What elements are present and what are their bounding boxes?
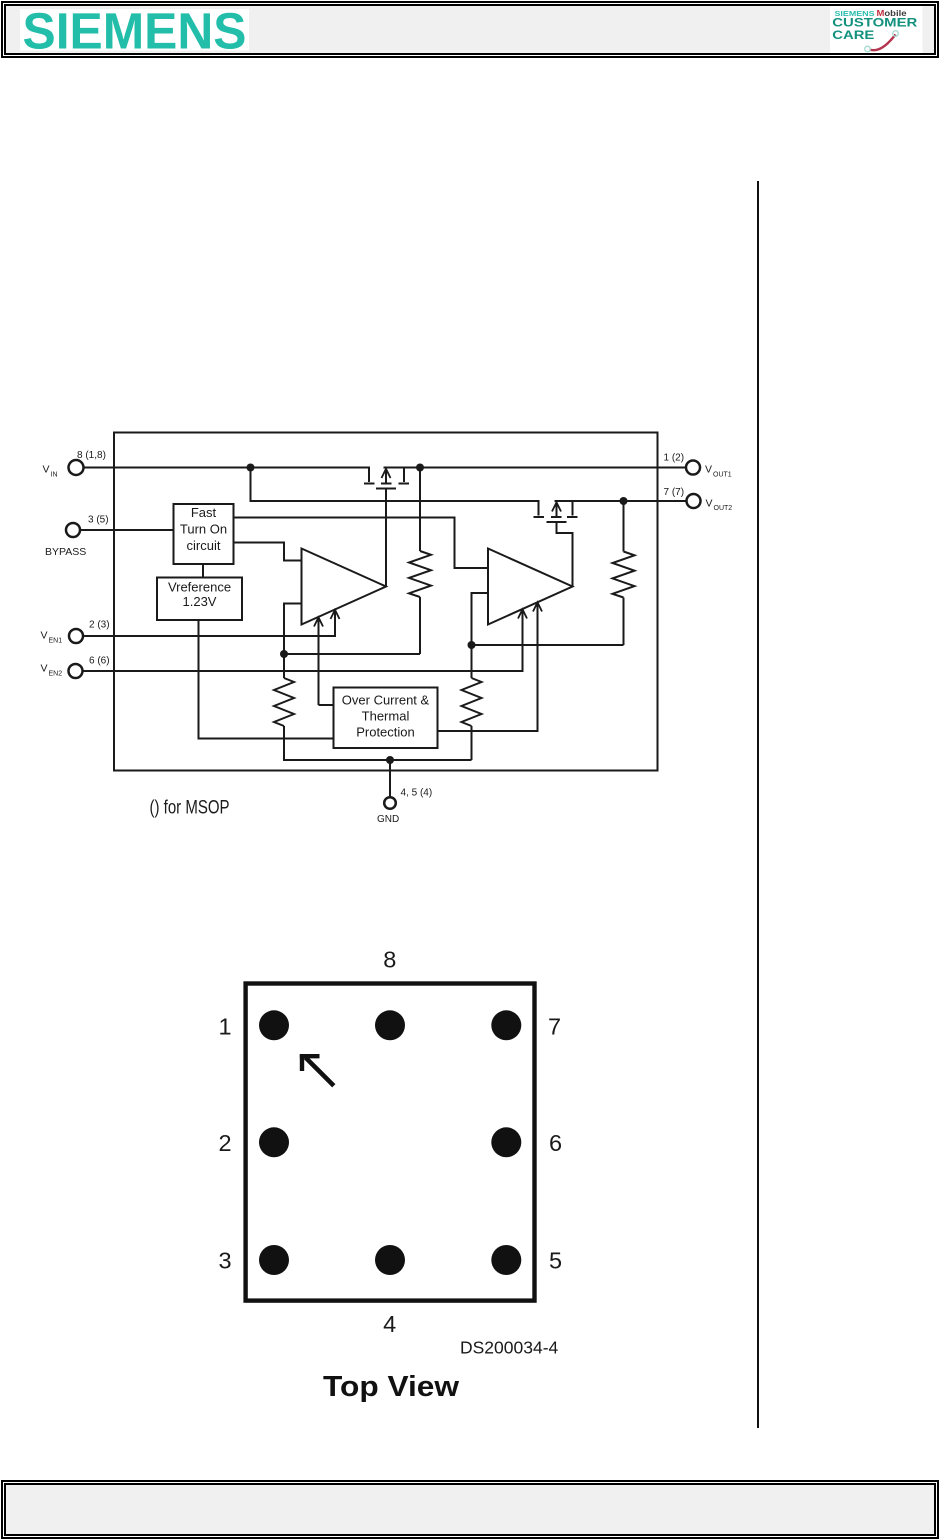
svg-text:IN: IN [51, 472, 58, 479]
svg-text:7 (7): 7 (7) [664, 487, 685, 498]
svg-text:V: V [41, 663, 48, 675]
svg-text:Vreference: Vreference [168, 580, 231, 595]
svg-text:4, 5 (4): 4, 5 (4) [401, 788, 433, 799]
svg-text:Turn On: Turn On [180, 522, 227, 537]
svg-text:Thermal: Thermal [362, 709, 410, 724]
svg-text:DS200034-4: DS200034-4 [460, 1338, 559, 1358]
svg-text:SIEMENS: SIEMENS [23, 9, 247, 53]
svg-text:V: V [706, 498, 713, 510]
svg-text:7: 7 [548, 1014, 561, 1040]
svg-text:V: V [43, 464, 50, 476]
svg-text:GND: GND [377, 814, 399, 825]
svg-text:() for MSOP: () for MSOP [150, 798, 230, 819]
svg-text:OUT2: OUT2 [714, 505, 733, 512]
svg-text:V: V [705, 464, 712, 476]
svg-text:OUT1: OUT1 [713, 472, 732, 479]
svg-text:EN2: EN2 [49, 671, 63, 678]
svg-text:EN1: EN1 [49, 638, 63, 645]
svg-text:2: 2 [218, 1130, 231, 1156]
svg-text:1: 1 [218, 1014, 231, 1040]
svg-text:Over Current &: Over Current & [342, 693, 430, 708]
svg-text:CUSTOMER: CUSTOMER [832, 17, 918, 29]
svg-text:8: 8 [383, 947, 396, 973]
svg-text:3: 3 [218, 1248, 231, 1274]
svg-text:V: V [41, 630, 48, 642]
svg-text:4: 4 [383, 1311, 396, 1337]
svg-text:6 (6): 6 (6) [89, 656, 110, 667]
svg-text:1.23V: 1.23V [183, 594, 217, 609]
svg-text:8 (1,8): 8 (1,8) [77, 450, 106, 461]
svg-text:Fast: Fast [191, 505, 217, 520]
svg-text:Protection: Protection [356, 725, 415, 740]
svg-text:SIEMENS: SIEMENS [835, 9, 875, 18]
svg-text:3 (5): 3 (5) [88, 515, 109, 526]
svg-text:BYPASS: BYPASS [45, 546, 86, 558]
svg-text:5: 5 [549, 1248, 562, 1274]
svg-text:circuit: circuit [187, 538, 221, 553]
svg-text:1 (2): 1 (2) [664, 453, 685, 464]
svg-text:6: 6 [549, 1130, 562, 1156]
svg-text:Top View: Top View [323, 1371, 459, 1403]
svg-text:CARE: CARE [832, 30, 874, 42]
svg-text:2 (3): 2 (3) [89, 620, 110, 631]
